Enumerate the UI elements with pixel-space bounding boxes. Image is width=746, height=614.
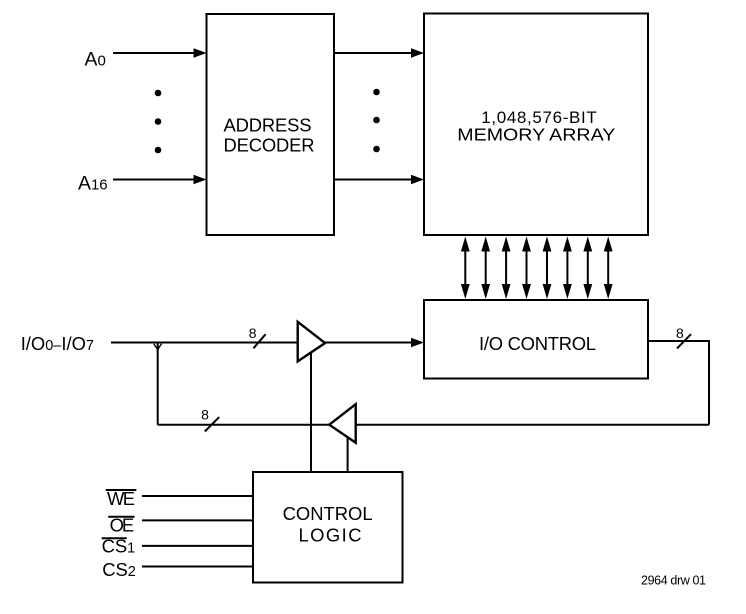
- svg-text:LOGIC: LOGIC: [299, 525, 362, 546]
- svg-text:DECODER: DECODER: [224, 135, 315, 156]
- svg-text:8: 8: [676, 325, 684, 341]
- svg-text:ADDRESS: ADDRESS: [224, 115, 312, 136]
- svg-text:8: 8: [249, 325, 257, 341]
- svg-text:WE: WE: [107, 488, 135, 509]
- svg-text:A0: A0: [85, 49, 106, 71]
- svg-text:MEMORY ARRAY: MEMORY ARRAY: [457, 125, 615, 145]
- svg-text:8: 8: [201, 407, 209, 423]
- svg-text:2964 drw 01: 2964 drw 01: [641, 574, 706, 588]
- svg-text:A16: A16: [78, 172, 108, 194]
- svg-text:CONTROL: CONTROL: [283, 503, 373, 524]
- svg-text:I/O CONTROL: I/O CONTROL: [479, 333, 596, 354]
